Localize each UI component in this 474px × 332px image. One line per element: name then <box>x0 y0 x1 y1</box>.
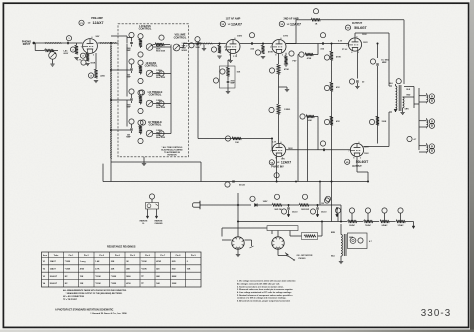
transformer T1 output primary <box>396 84 397 112</box>
socket V1V2 bottom view <box>232 237 244 249</box>
node tone group 2 junction <box>138 78 143 83</box>
label T2 leads <box>331 232 354 258</box>
resistor heater element <box>302 222 323 240</box>
wire heater string <box>238 182 347 222</box>
wire tone group 3 wiper to bus <box>153 103 171 105</box>
label switch <box>297 255 313 260</box>
wire vertical bus left of V2 <box>197 44 199 139</box>
tube V2 12AX7 1st AF <box>224 38 240 57</box>
wire branch into box row4 <box>111 129 127 131</box>
capacitor tone group 3 <box>126 89 134 109</box>
potentiometer tone group 2 <box>146 70 166 79</box>
resistor R22 100 ohm 2W <box>299 194 330 211</box>
capacitor C7 coupling .006 <box>249 33 254 51</box>
label V6 output <box>345 159 370 168</box>
transformer T2 line ballast <box>341 234 346 256</box>
resistor R16 V5 grid 470K <box>324 44 341 61</box>
resistor R19 330K <box>369 116 386 125</box>
resistor R18 47K <box>324 116 340 125</box>
node rectifier ref <box>325 196 330 201</box>
table resistance readings grid <box>42 252 202 287</box>
wire V3 plate to V5 grid <box>286 43 349 45</box>
label photofact line1 <box>55 308 114 311</box>
rectifier SR1 selenium <box>250 196 272 206</box>
resistor R23 470K feedback <box>299 44 318 60</box>
wire chain to heater section <box>330 205 341 222</box>
resistor R25 1M bleeder <box>321 198 329 205</box>
label V3 plate voltage <box>283 36 289 38</box>
node tone group 3 junction <box>138 108 143 113</box>
node tone group 4 junction <box>138 138 143 143</box>
resistor R3 V1 cathode <box>77 53 90 66</box>
capacitor C13 50mfd <box>225 180 246 187</box>
resistor heater RH1 10VAC <box>348 208 364 227</box>
wire shielded cable down to controls <box>110 43 112 182</box>
table data rows <box>43 260 191 285</box>
label V3 2nd AF amp <box>279 18 301 27</box>
ground below level control <box>50 59 54 66</box>
wire socket feeds <box>222 193 267 237</box>
wire to heater element <box>290 231 302 237</box>
wire tone group 4 links <box>127 129 132 131</box>
wire V3 cathode to V4 grid column <box>278 54 280 65</box>
speaker SP2 <box>419 118 435 128</box>
wire tone group 2 links <box>127 70 132 97</box>
node remote terminal group <box>140 194 164 225</box>
table footnotes <box>63 289 127 301</box>
wire V6 plate to OT <box>357 157 368 182</box>
wire V2 plate coupling <box>240 43 272 45</box>
label V2 plate voltage <box>237 36 243 38</box>
node tone group 3 right ref <box>159 101 164 106</box>
wire feedback vertical 2 <box>307 117 309 182</box>
wire branch into box row1 <box>111 36 127 43</box>
wire branch into box row3 <box>111 99 127 101</box>
transformer T1 secondary <box>403 97 404 108</box>
wire V4 cathode to bus <box>274 156 279 181</box>
resistor R17 47K <box>324 60 340 182</box>
capacitor tone group 2 <box>126 59 134 79</box>
potentiometer volume control 1 MEG <box>173 43 188 52</box>
terminal strip phono motor <box>267 226 298 231</box>
ground T1 secondary <box>400 108 404 115</box>
wire tone group 3 links <box>127 100 132 127</box>
capacitor tone group 1 <box>126 32 134 52</box>
wire T2 top <box>340 224 342 235</box>
resistor R12 V3 cathode <box>284 51 297 66</box>
node junction dots <box>110 42 378 222</box>
node AC interlock plug <box>192 201 200 209</box>
wire tone group 1 links <box>127 38 132 71</box>
label V5 voltages <box>338 34 368 51</box>
ground socket A <box>236 249 240 256</box>
node tone group 1 junction <box>138 52 143 57</box>
label HI TREBLE CONTROL <box>140 120 162 127</box>
capacitor C16 30mfd <box>336 207 339 217</box>
label photofact line2 <box>90 312 127 315</box>
label V4 voltages <box>272 141 293 160</box>
label VOLUME CONTROL <box>174 33 187 40</box>
wire drop x238 <box>237 228 239 237</box>
enclosure pilot box <box>348 233 368 249</box>
wire shielded lead from phono input <box>35 42 83 44</box>
wire drop to rectifier line <box>319 182 321 205</box>
feedback line y138 <box>198 136 275 151</box>
resistor R8 V2 grid return <box>211 44 230 59</box>
wire AC line <box>200 204 251 206</box>
capacitor C12 coupling <box>320 141 325 151</box>
enclosure dashed tone-control box <box>118 24 189 157</box>
wire branch into box row2 <box>111 69 127 71</box>
wire B- bus <box>103 164 368 182</box>
lamp PL1 pilot <box>350 238 372 244</box>
wire stub to ground <box>279 87 290 92</box>
label T1 leads <box>389 83 411 111</box>
node volume ref <box>189 42 202 49</box>
table title <box>107 245 136 248</box>
wire tone group 2 wiper to bus <box>153 73 171 75</box>
resistor heater RH2 70VAC <box>364 208 380 227</box>
label V1 plate voltage <box>96 36 100 38</box>
note inside tone box <box>161 146 183 156</box>
scan edge shading right <box>470 0 474 332</box>
scan edge shading bottom <box>0 330 474 332</box>
wire collector bus to volume <box>170 45 172 134</box>
node bus junction <box>295 181 321 183</box>
potentiometer tone group 1 <box>146 44 166 53</box>
wire tone group 1 wiper to bus <box>153 46 171 48</box>
ground tone box common <box>142 157 146 166</box>
node phono input terminal <box>22 40 35 46</box>
wire drop to level control <box>35 43 44 51</box>
capacitor C14 30mfd <box>281 205 297 217</box>
wire tone group 4 wiper to bus <box>153 133 171 135</box>
switch S1 on-off <box>278 249 295 260</box>
wire V3 plate riser <box>286 20 296 44</box>
node tone group 4 right ref <box>159 131 164 136</box>
resistor R14 470K <box>269 64 289 87</box>
resistor heater RH3 24VAC <box>380 208 396 227</box>
label V2 1st AF amp <box>220 18 242 27</box>
node junction at V2 grid <box>195 37 200 42</box>
resistor R21 56 ohm 2W <box>272 194 299 211</box>
wire tone box ground bus <box>111 162 201 182</box>
label sheet number 330-3 <box>421 308 452 319</box>
resistor R7 47K series <box>153 35 170 46</box>
ground T1 primary return <box>394 109 397 112</box>
enclosure V2 decoupling box <box>220 66 236 88</box>
resistor tone group 2 <box>138 60 143 74</box>
resistor R4 2200 ohm <box>88 53 105 83</box>
resistor R1 series <box>45 49 54 52</box>
tube V4 12AX7 phase inverter <box>271 142 286 160</box>
table header row <box>43 254 197 257</box>
resistor R11 V3 grid return <box>255 44 273 59</box>
wire secondary to speakers <box>403 87 419 151</box>
ground shield at V2 input <box>202 45 206 51</box>
ground heater string end <box>412 222 415 229</box>
notes list <box>237 280 296 303</box>
label HI BASS CONTROL <box>145 61 158 68</box>
resistor R20 4.7 ohm <box>407 136 416 141</box>
tube V1 12AX7 pre-amp triode <box>81 37 98 56</box>
wire socket B top <box>272 231 278 237</box>
resistor R13 B+ dropping 1K <box>296 9 404 26</box>
tube V3 12AX7 2nd AF <box>270 38 286 57</box>
wire B+ down to output transformer <box>403 20 405 84</box>
capacitor C9 coupling .006 <box>320 33 326 51</box>
wire V4 plate to V6 grid <box>286 149 351 151</box>
resistor tone group 4 <box>138 120 143 134</box>
speaker SP1 <box>419 93 435 103</box>
capacitor C11 1800 MMF <box>370 44 389 144</box>
wire volume to output <box>180 44 189 48</box>
speaker SP3 <box>419 143 435 153</box>
resistor R2 grid return <box>70 43 78 60</box>
wire socket A leads <box>222 240 254 248</box>
resistor tone group 3 <box>138 90 143 104</box>
label LO TREBLE CONTROL <box>139 90 162 97</box>
wire control box to V2 grid <box>189 43 226 45</box>
label LO BASS CONTROL <box>139 24 152 31</box>
label V4 phase inverter <box>269 160 291 169</box>
ground T2 <box>339 256 343 264</box>
wire feedback vertical <box>298 55 299 182</box>
resistor heater RH4 12VAC <box>396 208 412 227</box>
resistor R9 V2 cathode <box>228 53 237 62</box>
potentiometer tone group 4 <box>146 130 166 139</box>
tube V5 50L6GT output upper <box>347 36 362 54</box>
capacitor C15 30mfd <box>310 205 326 217</box>
capacitor C10 V5 cathode bypass <box>349 51 365 89</box>
node cathode resistor ref <box>81 60 96 65</box>
label V6 voltages <box>364 147 369 155</box>
node heater refs <box>335 208 340 222</box>
label V1 pre-amp <box>79 17 104 26</box>
resistor R15 1 MEG <box>269 87 291 143</box>
resistor tone group 1 <box>138 34 143 48</box>
potentiometer level control <box>49 50 69 60</box>
capacitor C6 bypass 2000MMF <box>213 76 235 94</box>
wire V1 plate to control box <box>97 42 118 44</box>
resistor R10 decoupling 10K <box>220 60 241 76</box>
node T1 ref <box>396 79 401 84</box>
label V5 output <box>345 22 367 30</box>
node tone group 2 right ref <box>159 71 164 76</box>
resistor R24 40K feedback <box>300 114 318 150</box>
wire V5 plate to OT <box>355 33 392 86</box>
capacitor tone group 4 <box>126 119 134 139</box>
tube V6 50L6GT output lower <box>349 142 364 160</box>
wire V6 plate top route <box>363 112 392 147</box>
potentiometer tone group 3 <box>146 100 166 109</box>
socket V3V4 bottom view <box>272 237 284 249</box>
capacitor C1 coupling <box>66 36 71 45</box>
transformer T1 core <box>399 85 401 111</box>
